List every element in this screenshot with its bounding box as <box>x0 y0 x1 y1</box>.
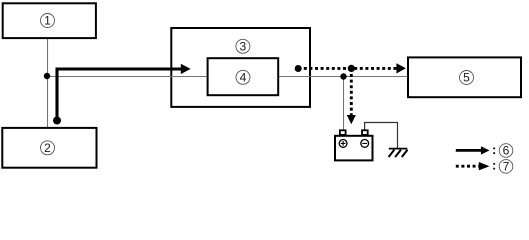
label circled 7 <box>499 160 513 174</box>
node: junction dot on gray bus below block 1 <box>44 73 50 79</box>
legend dotted arrow <box>456 158 497 173</box>
node: junction dot on dotted line above battery <box>348 65 355 72</box>
ground <box>389 149 408 157</box>
wire: dotted signal line from block 3 to block 5 <box>298 67 397 70</box>
label circled 2 <box>41 141 55 155</box>
svg-text:5: 5 <box>463 71 470 85</box>
svg-text:6: 6 <box>503 144 510 158</box>
node: dot start of dotted line inside block 3 <box>295 65 302 72</box>
wire: dotted branch arrow down to battery <box>350 68 353 115</box>
battery terminal - <box>362 130 368 135</box>
block 2 <box>2 128 96 168</box>
wire: gray drop from block 1 to block 2 <box>47 39 49 127</box>
legend solid arrow <box>456 142 497 157</box>
battery minus symbol <box>361 140 369 148</box>
svg-text:3: 3 <box>240 40 247 54</box>
svg-text:2: 2 <box>44 141 51 155</box>
label circled 3 <box>236 39 250 53</box>
wire: gray horizontal bus to block 5 <box>47 76 408 78</box>
label circled 6 <box>499 144 513 158</box>
svg-text::: : <box>492 158 496 173</box>
label circled 5 <box>460 71 474 85</box>
block 5 <box>408 57 521 97</box>
label circled 1 <box>41 14 55 28</box>
battery <box>335 130 373 160</box>
block 1 <box>3 3 96 38</box>
node: junction dot on gray bus at battery branch <box>340 73 346 79</box>
battery plus symbol <box>339 140 347 148</box>
battery terminal + <box>340 130 346 135</box>
svg-text:4: 4 <box>240 71 247 85</box>
block 4 (inner unit box) <box>208 58 279 95</box>
label circled 4 <box>236 70 250 84</box>
block 3 (outer unit box) <box>171 28 310 107</box>
svg-text:7: 7 <box>503 160 510 174</box>
wire: thick solid signal arrow from block 2 to block 3 <box>53 64 191 125</box>
wire: gray branch down to battery + terminal <box>343 77 345 130</box>
svg-text:1: 1 <box>44 14 51 28</box>
svg-text::: : <box>492 142 496 157</box>
wire: battery negative to ground <box>365 123 398 149</box>
